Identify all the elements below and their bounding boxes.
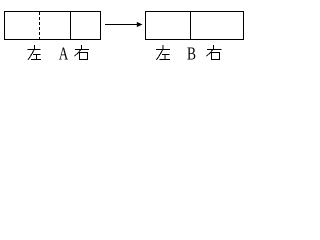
label A under left node — [59, 44, 69, 64]
solid divider (right pointer field) of left node — [70, 12, 72, 40]
label 右 under right node — [207, 45, 222, 60]
label 左 under left node — [28, 45, 42, 60]
label 右 under left node — [75, 45, 90, 60]
label 左 under right node — [156, 45, 170, 60]
svg-text:A: A — [59, 44, 69, 64]
left node box — [5, 12, 101, 40]
arrow from left node right-pointer to right node — [105, 22, 143, 27]
right node box — [146, 12, 244, 40]
dashed divider (left pointer field) of left node — [39, 12, 41, 39]
solid divider of right node — [190, 12, 192, 40]
label B under right node — [187, 44, 196, 64]
svg-text:B: B — [187, 44, 196, 64]
